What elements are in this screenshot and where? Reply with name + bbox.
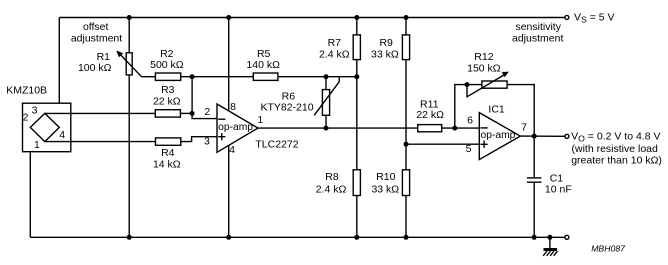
svg-text:op-amp: op-amp xyxy=(481,130,516,141)
svg-text:22 kΩ: 22 kΩ xyxy=(153,95,181,107)
svg-text:2.4 kΩ: 2.4 kΩ xyxy=(319,49,350,61)
svg-text:4: 4 xyxy=(229,144,235,156)
svg-text:IC1: IC1 xyxy=(488,103,505,115)
svg-text:33 kΩ: 33 kΩ xyxy=(371,49,399,61)
svg-text:R6: R6 xyxy=(282,90,296,102)
svg-text:150 kΩ: 150 kΩ xyxy=(467,63,501,75)
svg-text:MBH087: MBH087 xyxy=(591,243,626,253)
svg-text:R4: R4 xyxy=(161,147,175,159)
svg-text:VS = 5 V: VS = 5 V xyxy=(574,11,615,24)
svg-text:R3: R3 xyxy=(161,84,175,96)
svg-text:500 kΩ: 500 kΩ xyxy=(150,59,184,71)
svg-text:7: 7 xyxy=(521,122,527,134)
svg-text:3: 3 xyxy=(32,105,38,117)
svg-text:sensitivity: sensitivity xyxy=(515,21,561,33)
svg-text:KMZ10B: KMZ10B xyxy=(6,85,47,97)
svg-text:(with resistive load: (with resistive load xyxy=(572,143,659,155)
svg-text:4: 4 xyxy=(59,129,65,141)
svg-text:8: 8 xyxy=(230,101,236,113)
svg-text:5: 5 xyxy=(466,143,472,155)
svg-text:R8: R8 xyxy=(325,171,339,183)
svg-text:greater than 10 kΩ): greater than 10 kΩ) xyxy=(571,155,662,167)
svg-text:R12: R12 xyxy=(474,51,493,63)
svg-text:TLC2272: TLC2272 xyxy=(255,139,298,151)
svg-text:33 kΩ: 33 kΩ xyxy=(371,183,399,195)
svg-text:offset: offset xyxy=(83,21,109,33)
svg-text:100 kΩ: 100 kΩ xyxy=(78,62,112,74)
svg-text:VO = 0.2 V to 4.8 V: VO = 0.2 V to 4.8 V xyxy=(571,131,660,144)
svg-text:2: 2 xyxy=(23,111,29,123)
svg-text:R1: R1 xyxy=(97,51,111,63)
svg-text:2.4 kΩ: 2.4 kΩ xyxy=(316,183,347,195)
svg-text:140 kΩ: 140 kΩ xyxy=(246,59,280,71)
svg-text:6: 6 xyxy=(467,114,473,126)
svg-text:2: 2 xyxy=(204,106,210,118)
svg-text:14 kΩ: 14 kΩ xyxy=(153,158,181,170)
svg-text:3: 3 xyxy=(204,136,210,148)
svg-text:R10: R10 xyxy=(376,171,395,183)
svg-text:op-amp: op-amp xyxy=(218,122,253,133)
svg-text:22 kΩ: 22 kΩ xyxy=(416,109,444,121)
svg-text:adjustment: adjustment xyxy=(512,33,563,45)
svg-text:1: 1 xyxy=(34,139,40,151)
svg-text:1: 1 xyxy=(257,114,263,126)
svg-text:10 nF: 10 nF xyxy=(545,183,572,195)
svg-text:R7: R7 xyxy=(328,37,342,49)
svg-text:adjustment: adjustment xyxy=(71,33,122,45)
svg-text:KTY82-210: KTY82-210 xyxy=(260,102,313,114)
svg-text:R9: R9 xyxy=(379,37,393,49)
